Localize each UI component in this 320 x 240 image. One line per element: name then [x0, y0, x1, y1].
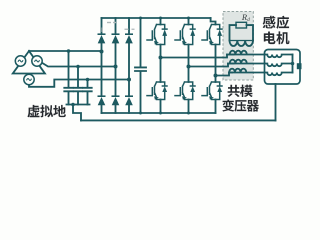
capacitor C2 [74, 88, 82, 105]
diode D4 [98, 95, 106, 97]
wire phase C [29, 80, 129, 87]
diode D2 [125, 95, 133, 97]
source winding circles [15, 56, 42, 85]
junction node out U [159, 56, 163, 60]
igbt S5 upper leg3 [202, 25, 222, 45]
wire motor frame drop [275, 84, 277, 121]
common-mode transformer dashed enclosure [223, 12, 253, 81]
junction node wire3-col3 [127, 78, 131, 82]
label 感应 [263, 16, 289, 29]
rectifier column 1 [101, 18, 103, 113]
source phase circle bottom [24, 74, 34, 84]
label 变压器 [222, 99, 259, 111]
igbt S6 lower leg2 parts [182, 96, 187, 100]
diode D3 [112, 33, 120, 35]
junction node bus-cap [139, 17, 142, 20]
resistor R box [236, 22, 247, 28]
diode D6 [112, 95, 120, 97]
motor coil W [265, 73, 293, 76]
junction node cap3 tap [86, 78, 90, 82]
junction node cap1 tap [67, 49, 71, 53]
junction node cap2 tap [76, 65, 80, 69]
output wire U [161, 55, 234, 58]
igbt S6 lower leg2 [175, 82, 195, 100]
junction node motor star [291, 62, 295, 66]
igbt S1 upper leg1 parts [154, 41, 159, 45]
label 电机 [264, 31, 290, 44]
label 共模 [228, 85, 253, 97]
junction node bus-leg1 [159, 17, 162, 20]
motor coil V [265, 64, 293, 67]
tertiary winding [230, 41, 253, 47]
junction node bus drop [71, 103, 75, 107]
motor terminal square [297, 63, 302, 69]
output wire V [189, 64, 234, 67]
faint label remnants [102, 22, 135, 32]
node B-C2 tap [77, 67, 79, 88]
junction node wire1-col1 [100, 50, 104, 54]
output wire W [216, 73, 233, 76]
igbt S1 upper leg1 [147, 25, 167, 45]
induction motor frame [265, 50, 301, 85]
wire phase B [42, 63, 116, 67]
label 虚拟地 [27, 105, 66, 118]
sine mark right [35, 60, 40, 62]
junction node busb-leg2 [187, 112, 190, 115]
ground return wire [81, 119, 276, 121]
motor star point [292, 55, 294, 73]
igbt S2 lower leg3 [202, 82, 222, 100]
motor coil U [265, 55, 293, 58]
capacitor C3 [83, 88, 91, 105]
three-phase source delta [13, 51, 45, 74]
CM winding row 2 [228, 60, 265, 64]
junction node out V [187, 65, 191, 69]
wire phase A [29, 50, 102, 52]
rectifier column 2 [115, 18, 117, 113]
node A-C1 tap [68, 51, 70, 88]
rectifier column 3 [128, 18, 130, 113]
capacitor C1 [64, 88, 72, 105]
igbt S2 lower leg3 parts [209, 96, 214, 100]
junction node out W [214, 74, 218, 78]
IGBT switches (6): template drawn per leg [147, 25, 222, 100]
igbt S4 lower leg1 [147, 82, 167, 100]
inverter leg3 wire [215, 45, 217, 114]
diode D5 [125, 33, 133, 35]
junction node wire2-col2 [114, 65, 118, 69]
igbt S4 lower leg1 parts [154, 96, 159, 100]
dc top bus [102, 17, 211, 19]
sine mark left [18, 60, 23, 62]
node C-C3 tap [87, 80, 89, 88]
damping resistor loop [230, 25, 254, 40]
CM winding row 1 [227, 51, 265, 55]
source phase circle left [15, 56, 25, 66]
igbt S5 upper leg3 parts [209, 41, 214, 45]
igbt S3 upper leg2 parts [182, 41, 187, 45]
junction node busb-cap [139, 112, 142, 115]
wire leg3 top jog [211, 18, 216, 25]
inverter leg1 wire [160, 18, 162, 113]
dc-link capacitor [135, 18, 146, 113]
dc bottom bus [102, 112, 216, 114]
diode D1 [98, 33, 106, 35]
source phase circle right [32, 56, 42, 66]
junction node busb-leg1 [159, 112, 162, 115]
igbt S3 upper leg2 [175, 25, 195, 45]
junction node bus-leg2 [187, 17, 190, 20]
virtual-ground bus [67, 104, 90, 106]
inverter leg2 wire [188, 18, 190, 113]
sine mark bottom [27, 79, 32, 81]
CM winding row 3 [229, 69, 265, 73]
wire bus to return [73, 105, 81, 121]
